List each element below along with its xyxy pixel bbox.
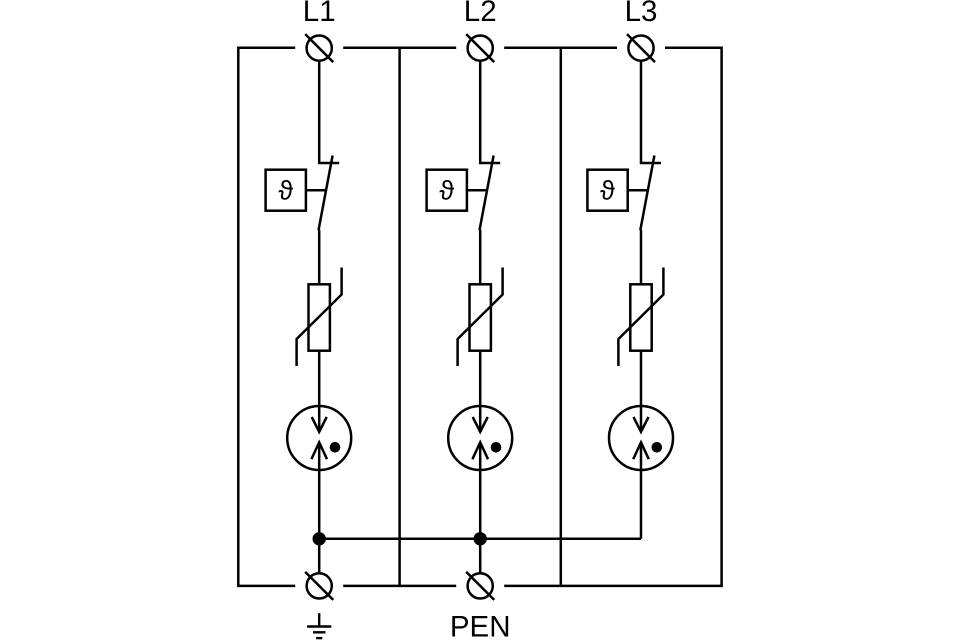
- ground symbol: [307, 613, 331, 638]
- terminal L2 (circle with slash): [466, 34, 494, 62]
- thermal response box (L2): [427, 170, 467, 211]
- terminal PEN (circle with slash): [466, 572, 494, 600]
- wire: top bus segment between L2 and L3 terminals: [504, 47, 617, 50]
- svg-text:ϑ: ϑ: [600, 176, 615, 206]
- thermal response box (L1): [266, 170, 306, 211]
- wire: bottom frame segment left of ground terminal: [238, 585, 295, 588]
- svg-text:ϑ: ϑ: [439, 176, 454, 206]
- svg-text:PEN: PEN: [450, 611, 511, 640]
- wire: thermal box link to switch blade (L3): [628, 189, 648, 192]
- wire: junction to PEN terminal: [479, 539, 482, 573]
- svg-text:L1: L1: [303, 0, 336, 28]
- spark gap top arrow head (L3): [634, 417, 649, 432]
- wire: switch to varistor (L2): [479, 230, 482, 285]
- wire: bottom frame segment between ground and PEN terminals: [343, 585, 456, 588]
- spark gap / gas discharge tube circle (L3): [609, 406, 673, 470]
- wire: spark gap bottom electrode down to PEN bus (L3): [640, 442, 643, 538]
- node: junction dot L1/PEN: [313, 532, 326, 545]
- thermal disconnect switch blade (L1): [319, 156, 333, 231]
- terminal L1 (circle with slash): [305, 34, 333, 62]
- svg-text:ϑ: ϑ: [278, 176, 293, 206]
- thermal response box (L3): [587, 170, 627, 211]
- wire: varistor to spark gap (L2): [479, 351, 482, 432]
- wire: PEN junction bus: [319, 538, 641, 541]
- wire: right frame edge: [720, 47, 723, 588]
- wire: spark gap bottom electrode to junction (L1): [318, 442, 321, 538]
- wire: top bus segment between L1 and L2 terminals: [343, 47, 456, 50]
- spark gap bottom arrow head (L1): [311, 442, 327, 459]
- wire: L1 terminal to switch contact bar: [319, 61, 339, 163]
- varistor RV2 diagonal (L2): [458, 268, 503, 367]
- terminal to earth (circle with slash): [305, 572, 333, 600]
- varistor RV3 body (L3): [630, 284, 651, 350]
- varistor RV1 diagonal (L1): [297, 268, 342, 367]
- wire: thermal box link to switch blade (L1): [306, 189, 326, 192]
- spark gap gas-filled dot (L3): [652, 442, 663, 453]
- wire: left frame edge: [237, 47, 240, 588]
- spark gap gas-filled dot (L1): [330, 442, 341, 453]
- spark gap gas-filled dot (L2): [491, 442, 502, 453]
- thermal disconnect switch blade (L3): [640, 156, 654, 231]
- wire: top bus segment right of L3 terminal: [665, 47, 722, 50]
- spark gap top arrow head (L1): [312, 417, 327, 432]
- svg-text:L3: L3: [625, 0, 658, 28]
- varistor RV2 body (L2): [470, 284, 491, 350]
- wire: bottom frame segment right of PEN terminal: [504, 585, 721, 588]
- wire: varistor to spark gap (L1): [318, 351, 321, 432]
- wire: divider between L1 and L2 columns: [398, 48, 401, 586]
- svg-text:L2: L2: [464, 0, 497, 28]
- wire: top bus segment left of L1 terminal: [238, 47, 295, 50]
- spark gap bottom arrow head (L2): [472, 442, 488, 459]
- terminal L3 (circle with slash): [627, 34, 655, 62]
- wire: varistor to spark gap (L3): [640, 351, 643, 432]
- wire: L3 terminal to switch contact bar: [641, 61, 661, 163]
- varistor RV1 body (L1): [309, 284, 330, 350]
- wire: L2 terminal to switch contact bar: [480, 61, 500, 163]
- spark gap / gas discharge tube circle (L2): [448, 406, 512, 470]
- wire: spark gap bottom electrode to junction (L2): [479, 442, 482, 538]
- wire: divider between L2 and L3 columns: [560, 48, 563, 586]
- varistor RV3 diagonal (L3): [618, 268, 663, 367]
- spark gap bottom arrow head (L3): [633, 442, 649, 459]
- node: junction dot L2/PEN: [474, 532, 487, 545]
- thermal disconnect switch blade (L2): [480, 156, 494, 231]
- wire: thermal box link to switch blade (L2): [467, 189, 487, 192]
- spark gap / gas discharge tube circle (L1): [287, 406, 351, 470]
- spark gap top arrow head (L2): [473, 417, 488, 432]
- wire: switch to varistor (L1): [318, 230, 321, 285]
- wire: junction to ground terminal: [318, 539, 321, 573]
- wire: switch to varistor (L3): [640, 230, 643, 285]
